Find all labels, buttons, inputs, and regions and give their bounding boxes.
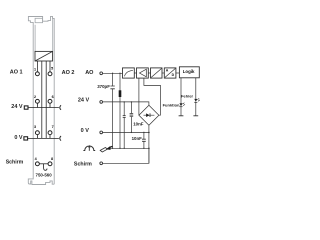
svg-text:3: 3 <box>34 125 36 129</box>
junction dot v4/0V <box>131 132 132 133</box>
svg-text:6: 6 <box>52 95 54 99</box>
svg-text:24 V: 24 V <box>78 97 90 103</box>
D/A diagonal <box>165 69 175 78</box>
svg-text:370pF: 370pF <box>97 84 110 89</box>
24V rail wire into bridge top <box>103 102 149 105</box>
junction dot cap5/0V <box>143 132 144 133</box>
svg-text:2: 2 <box>34 95 36 99</box>
svg-text:750-560: 750-560 <box>36 173 53 178</box>
svg-text:24 V: 24 V <box>11 104 23 110</box>
junction dot v2/AO <box>119 73 120 74</box>
24V feed-through wire <box>28 107 59 109</box>
logic left lead (Funktion LED line) <box>180 78 182 116</box>
terminal 6 (24V) <box>48 99 52 103</box>
stem terminal 2 to 24V wire <box>36 103 38 107</box>
lead from D/A to terminal 5 <box>49 61 51 72</box>
svg-text:AO 1: AO 1 <box>10 69 23 75</box>
filter curve <box>124 70 132 76</box>
Funktion LED <box>180 103 183 106</box>
0V continuation arc <box>60 136 61 141</box>
rail potential symbol (dome with arrow) <box>83 146 95 151</box>
wire isolation-D/A <box>162 72 164 74</box>
capacitor 10nF (0V to shield) <box>143 132 145 148</box>
svg-text:1: 1 <box>34 67 36 71</box>
module housing outline (side profile with top latch and bottom foot) <box>28 16 54 184</box>
wire amplifier-isolation <box>148 72 150 74</box>
AO wire to filter block <box>103 72 123 74</box>
inductor branch <box>119 73 121 148</box>
bridge rectifier diamond <box>139 105 159 125</box>
D/A converter block <box>35 51 53 61</box>
0V plug symbol <box>24 137 28 140</box>
amplifier triangle <box>140 69 147 77</box>
filter block <box>123 68 135 78</box>
wire filter-amplifier <box>134 72 136 74</box>
module inner wall left <box>34 25 36 52</box>
terminal 7 (0V) <box>48 131 52 135</box>
svg-text:8: 8 <box>51 157 53 161</box>
stem terminal 6 to 24V wire <box>49 103 51 107</box>
inductor (solid) <box>119 90 122 97</box>
schematic 0V terminal <box>100 131 103 134</box>
svg-text:0 V: 0 V <box>14 135 23 141</box>
svg-text:Fehler: Fehler <box>181 93 193 98</box>
0V feed-through wire <box>28 137 59 139</box>
terminal 5 (AO2) <box>48 72 52 76</box>
internal wire channel1 return <box>41 61 43 138</box>
capacitor 10nF shield plates <box>142 139 146 141</box>
terminal 8 (shield) <box>48 162 52 166</box>
0V rail wire <box>103 131 149 133</box>
stem terminal 7 to 0V wire <box>49 135 51 139</box>
terminal 2 (24V) <box>35 99 39 103</box>
24V plug symbol <box>24 106 28 109</box>
junction dot v3/24V <box>124 101 125 102</box>
svg-text:Funktion: Funktion <box>163 102 180 107</box>
logic block <box>179 67 199 78</box>
amplifier supply lead to bridge right corner <box>144 78 161 115</box>
chain below bridge <box>148 125 150 163</box>
junction dot v4/24V <box>131 101 132 102</box>
schematic shield terminal <box>100 162 103 165</box>
Fehler line end bar <box>193 115 198 117</box>
terminal 3 (0V) <box>35 131 39 135</box>
stem terminal 3 to 0V wire <box>36 135 38 139</box>
capacitor 370pF branch <box>112 73 114 148</box>
internal wire channel2 return <box>45 61 47 138</box>
svg-text:Logik: Logik <box>183 69 195 74</box>
junction dot chain/shield bus <box>148 148 150 150</box>
svg-text:7: 7 <box>52 125 54 129</box>
schematic AO terminal <box>100 72 103 75</box>
isolation block <box>151 68 163 78</box>
terminal 1 (AO1) <box>35 72 39 76</box>
shield link between terminals 4 and 8 <box>39 163 48 165</box>
svg-text:AO 2: AO 2 <box>62 70 75 76</box>
D/A converter diagonal <box>35 51 53 61</box>
amplifier supply lead to bridge left corner <box>138 78 140 115</box>
svg-text:Schirm: Schirm <box>6 159 24 165</box>
bridge diode <box>146 113 150 117</box>
lead from D/A to terminal 1 <box>36 61 38 72</box>
24V continuation arc <box>60 105 61 110</box>
schematic 24V terminal <box>100 101 103 104</box>
svg-text:10nF: 10nF <box>132 136 143 141</box>
junction dot bridge/0V <box>148 132 150 134</box>
capacitor v3 plates <box>123 116 126 118</box>
junction dot cap5/bus <box>143 148 144 149</box>
capacitor 10nF plates (bold) <box>130 114 134 116</box>
junction dots on shield bus <box>112 148 113 149</box>
wire D/A-logic <box>176 72 180 74</box>
DIN rail contact arrow <box>109 146 112 147</box>
shield wire up to bus <box>103 148 149 163</box>
DIN rail contact plate <box>100 148 107 153</box>
shield hook to rail <box>44 164 48 170</box>
terminal 4 (shield) <box>35 162 39 166</box>
svg-text:5: 5 <box>51 66 53 70</box>
svg-text:AO: AO <box>85 70 94 76</box>
capacitor 370pF plates <box>110 86 114 89</box>
module inner wall right <box>52 19 54 52</box>
capacitor 10nF branch v4 <box>130 102 132 132</box>
amplifier block <box>137 68 149 78</box>
svg-text:10nF: 10nF <box>133 121 144 126</box>
svg-text:Schirm: Schirm <box>74 161 92 167</box>
junction dot v1/AO <box>112 73 113 74</box>
isolation diagonal <box>151 69 161 78</box>
logic right lead (Fehler LED line) <box>195 78 197 116</box>
capacitor branch v3 <box>123 102 125 148</box>
Fehler LED <box>194 99 197 102</box>
svg-text:0 V: 0 V <box>81 128 90 134</box>
Funktion line end bar <box>179 115 184 117</box>
shield collection bus <box>107 147 148 149</box>
D/A block <box>164 68 176 78</box>
module latch window <box>35 18 43 22</box>
